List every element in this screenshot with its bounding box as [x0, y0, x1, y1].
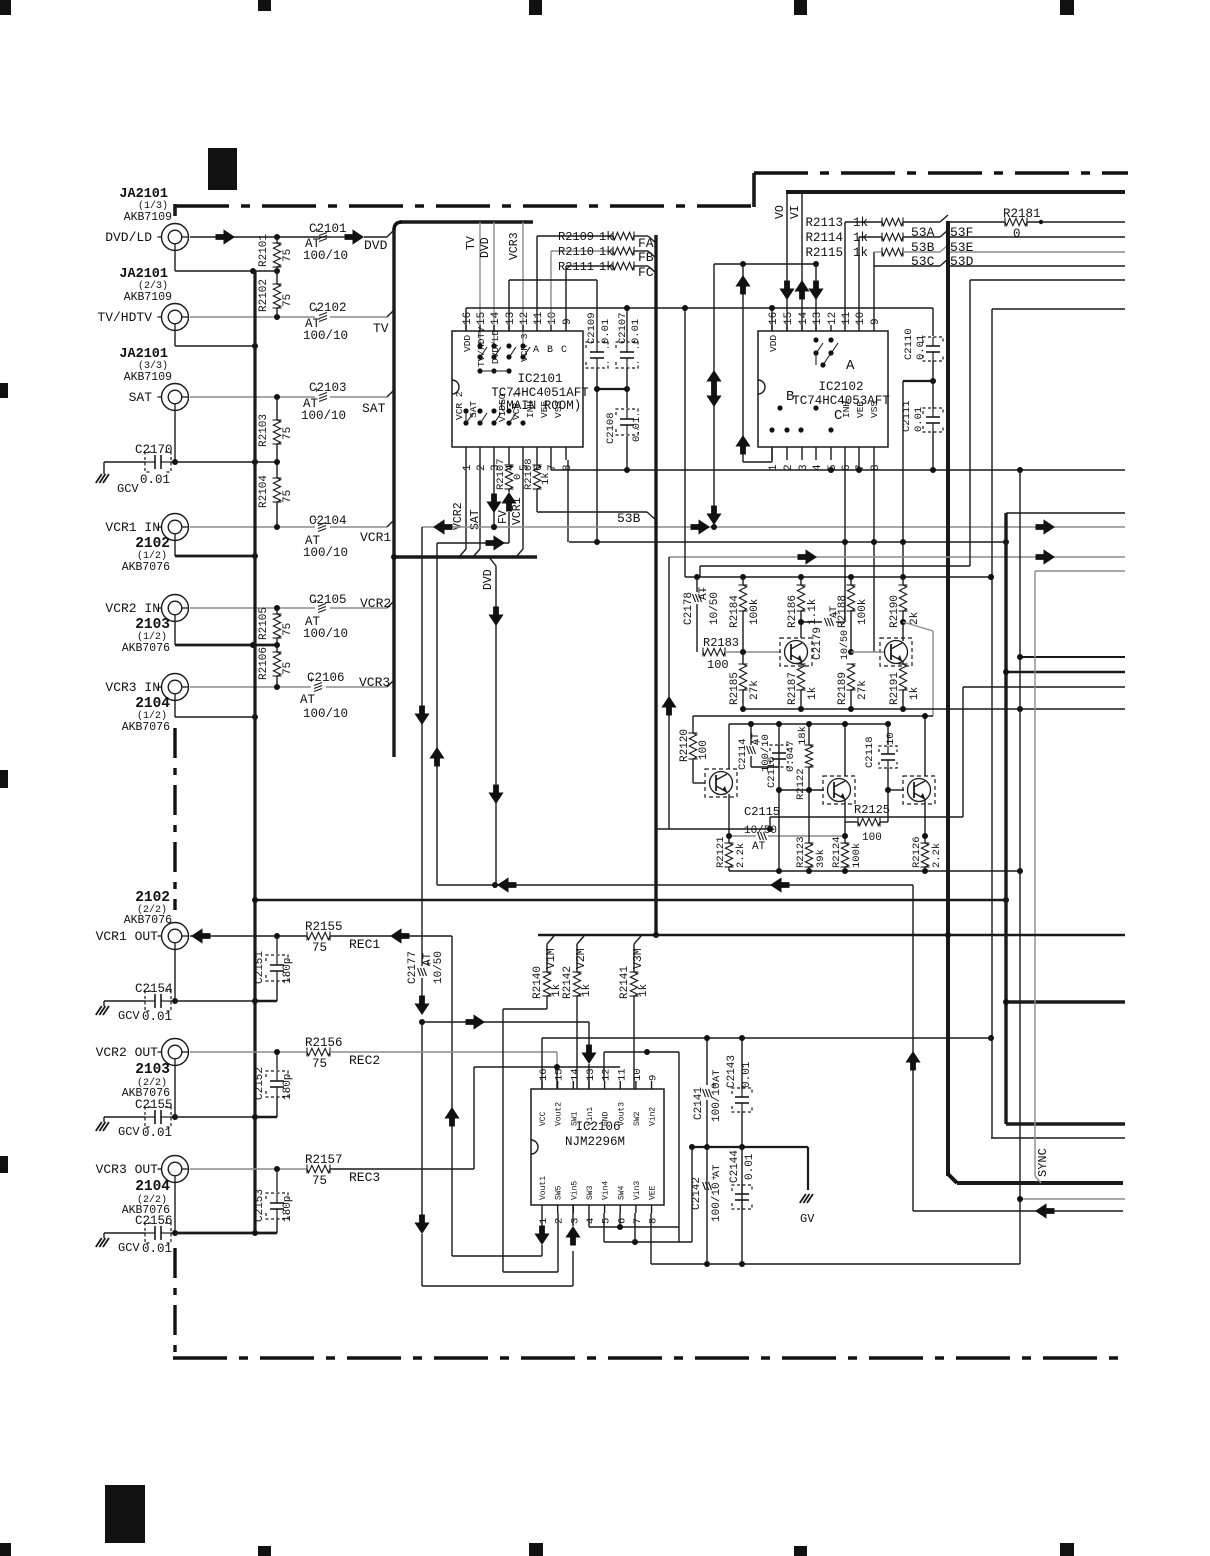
- svg-text:100/10: 100/10: [711, 1182, 723, 1222]
- svg-text:NJM2296M: NJM2296M: [565, 1135, 625, 1149]
- svg-text:R2157: R2157: [305, 1153, 343, 1167]
- svg-text:12: 12: [519, 312, 531, 325]
- svg-text:R2111: R2111: [558, 260, 594, 274]
- svg-text:15: 15: [476, 312, 488, 325]
- svg-text:10/50: 10/50: [433, 951, 445, 984]
- svg-text:C: C: [561, 345, 567, 356]
- svg-text:100/10: 100/10: [303, 546, 348, 560]
- svg-text:100k: 100k: [749, 598, 761, 625]
- svg-text:AT: AT: [711, 1069, 723, 1082]
- svg-text:C2153: C2153: [254, 1189, 266, 1222]
- svg-text:IC2101: IC2101: [517, 372, 562, 386]
- svg-text:R2186: R2186: [787, 595, 799, 628]
- svg-text:VEE: VEE: [649, 1185, 658, 1200]
- svg-text:GCV: GCV: [117, 482, 139, 496]
- svg-text:B: B: [547, 345, 553, 356]
- svg-text:R2108: R2108: [523, 458, 535, 490]
- svg-text:TV/HDTV: TV/HDTV: [97, 310, 152, 325]
- svg-text:R2106: R2106: [258, 647, 270, 680]
- svg-text:0.01: 0.01: [631, 417, 643, 442]
- svg-text:C2143: C2143: [726, 1055, 738, 1088]
- svg-text:100/10: 100/10: [303, 627, 348, 641]
- svg-text:10/50: 10/50: [839, 630, 851, 660]
- svg-text:1k: 1k: [638, 983, 650, 997]
- svg-text:C2144: C2144: [729, 1150, 741, 1183]
- svg-text:R2113: R2113: [805, 216, 843, 230]
- svg-text:2: 2: [476, 464, 488, 471]
- svg-text:C2108: C2108: [605, 412, 617, 444]
- svg-text:11: 11: [533, 311, 545, 325]
- svg-text:10: 10: [632, 1068, 644, 1081]
- svg-text:16: 16: [538, 1068, 550, 1081]
- svg-text:VCR 2: VCR 2: [454, 391, 465, 420]
- svg-text:14: 14: [798, 311, 810, 325]
- svg-text:JA2101: JA2101: [119, 347, 168, 362]
- svg-text:11: 11: [841, 311, 853, 325]
- svg-text:REC1: REC1: [349, 937, 380, 952]
- svg-text:R2142: R2142: [562, 966, 574, 999]
- svg-text:9: 9: [870, 318, 882, 325]
- svg-text:C2179: C2179: [812, 627, 824, 660]
- svg-text:VCR3: VCR3: [359, 675, 390, 690]
- svg-text:0.01: 0.01: [142, 1242, 172, 1256]
- svg-text:2: 2: [554, 1218, 566, 1224]
- svg-text:100/10: 100/10: [711, 1082, 723, 1122]
- svg-text:13: 13: [585, 1068, 597, 1081]
- svg-text:C2151: C2151: [254, 951, 266, 984]
- svg-text:GV: GV: [800, 1212, 815, 1226]
- svg-text:REC3: REC3: [349, 1170, 380, 1185]
- svg-text:2k: 2k: [909, 611, 921, 625]
- svg-text:1.1k: 1.1k: [807, 598, 819, 625]
- svg-text:C2152: C2152: [254, 1067, 266, 1100]
- svg-text:AT: AT: [752, 841, 766, 853]
- svg-text:VEE: VEE: [855, 401, 866, 418]
- svg-text:18k: 18k: [797, 726, 809, 745]
- svg-text:1k: 1k: [581, 983, 593, 997]
- svg-text:VI: VI: [789, 205, 802, 219]
- svg-text:53D: 53D: [950, 254, 974, 269]
- svg-text:0: 0: [1013, 227, 1021, 241]
- svg-text:SAT: SAT: [129, 390, 153, 405]
- svg-text:1k: 1k: [599, 230, 613, 244]
- svg-text:C2106: C2106: [307, 671, 345, 685]
- svg-text:16: 16: [462, 312, 474, 325]
- svg-text:2102: 2102: [135, 536, 170, 552]
- svg-text:100/10: 100/10: [301, 409, 346, 423]
- svg-text:1k: 1k: [599, 260, 613, 274]
- svg-text:2104: 2104: [135, 1179, 170, 1195]
- svg-text:R2141: R2141: [619, 966, 631, 999]
- svg-text:VCR3: VCR3: [508, 232, 521, 260]
- svg-text:R2122: R2122: [795, 768, 807, 800]
- svg-text:12: 12: [601, 1068, 613, 1081]
- svg-text:IC2106: IC2106: [575, 1120, 620, 1134]
- svg-text:9: 9: [648, 1075, 660, 1081]
- svg-text:C2178: C2178: [683, 592, 695, 625]
- svg-text:Vin2: Vin2: [649, 1107, 658, 1126]
- svg-text:C2101: C2101: [309, 222, 347, 236]
- svg-text:R2103: R2103: [258, 414, 270, 447]
- svg-text:AKB7109: AKB7109: [124, 211, 172, 224]
- svg-text:C2110: C2110: [903, 328, 915, 360]
- svg-text:FB: FB: [638, 250, 654, 265]
- svg-text:FA: FA: [638, 236, 654, 251]
- svg-text:VIDEO: VIDEO: [497, 393, 508, 422]
- svg-text:R2156: R2156: [305, 1036, 343, 1050]
- svg-text:15: 15: [783, 312, 795, 325]
- svg-text:C2118: C2118: [864, 736, 876, 768]
- svg-text:VCR2: VCR2: [452, 502, 465, 530]
- svg-text:AKB7076: AKB7076: [122, 642, 170, 655]
- svg-text:C2107: C2107: [617, 312, 629, 344]
- svg-text:GCV: GCV: [118, 1241, 140, 1255]
- svg-text:C2102: C2102: [309, 301, 347, 315]
- svg-text:75: 75: [312, 1057, 327, 1071]
- svg-text:R2109: R2109: [558, 230, 594, 244]
- svg-text:C2103: C2103: [309, 381, 347, 395]
- svg-text:REC2: REC2: [349, 1053, 380, 1068]
- svg-text:C2116: C2116: [766, 756, 778, 788]
- svg-text:FC: FC: [638, 265, 654, 280]
- svg-text:75: 75: [282, 623, 294, 636]
- svg-text:2.2k: 2.2k: [735, 843, 747, 868]
- svg-text:INH: INH: [841, 401, 852, 418]
- svg-text:12: 12: [827, 312, 839, 325]
- svg-text:C2109: C2109: [586, 312, 598, 344]
- svg-text:R2140: R2140: [532, 966, 544, 999]
- svg-text:VDD: VDD: [768, 335, 779, 352]
- svg-text:C2170: C2170: [135, 443, 173, 457]
- svg-text:180p: 180p: [282, 1074, 294, 1100]
- svg-text:VCR1: VCR1: [511, 497, 524, 525]
- svg-text:Vout2: Vout2: [555, 1102, 564, 1126]
- svg-text:53F: 53F: [950, 225, 973, 240]
- svg-text:SAT: SAT: [362, 401, 386, 416]
- svg-text:14: 14: [569, 1068, 581, 1081]
- svg-text:R2187: R2187: [787, 672, 799, 705]
- svg-text:FV: FV: [497, 510, 510, 524]
- svg-text:R2104: R2104: [258, 475, 270, 508]
- svg-text:R2183: R2183: [703, 636, 739, 650]
- svg-text:VSS: VSS: [553, 401, 564, 418]
- svg-text:SW4: SW4: [617, 1185, 626, 1200]
- svg-text:VCR3 IN: VCR3 IN: [105, 680, 160, 695]
- svg-text:53A: 53A: [911, 225, 935, 240]
- svg-text:C2156: C2156: [135, 1214, 173, 1228]
- svg-text:R2120: R2120: [679, 729, 691, 762]
- svg-text:0.01: 0.01: [600, 319, 612, 344]
- svg-text:R2114: R2114: [805, 231, 843, 245]
- svg-text:100/10: 100/10: [303, 707, 348, 721]
- svg-text:Vin4: Vin4: [602, 1181, 611, 1200]
- svg-text:VSS: VSS: [869, 401, 880, 418]
- svg-text:100/10: 100/10: [303, 249, 348, 263]
- svg-text:VCR2 IN: VCR2 IN: [105, 601, 160, 616]
- svg-text:11: 11: [616, 1068, 628, 1081]
- svg-text:GCV: GCV: [118, 1125, 140, 1139]
- svg-text:Vin5: Vin5: [570, 1181, 579, 1200]
- svg-text:VCR2 OUT: VCR2 OUT: [96, 1045, 159, 1060]
- svg-text:1k: 1k: [599, 245, 613, 259]
- svg-text:SAT: SAT: [468, 401, 479, 418]
- svg-text:2104: 2104: [135, 696, 170, 712]
- svg-text:100/10: 100/10: [303, 329, 348, 343]
- svg-text:R2115: R2115: [805, 246, 843, 260]
- svg-text:0.01: 0.01: [142, 1010, 172, 1024]
- svg-text:180p: 180p: [282, 1196, 294, 1222]
- svg-text:DVD: DVD: [364, 238, 388, 253]
- svg-text:10: 10: [855, 312, 867, 325]
- svg-text:V2M: V2M: [575, 948, 588, 969]
- svg-text:V1M: V1M: [545, 948, 558, 969]
- svg-text:53C: 53C: [911, 254, 935, 269]
- svg-text:13: 13: [812, 312, 824, 325]
- svg-text:TV: TV: [465, 236, 478, 250]
- svg-text:1k: 1k: [807, 686, 819, 700]
- svg-text:R2110: R2110: [558, 245, 594, 259]
- svg-text:VCC: VCC: [539, 1111, 548, 1126]
- svg-text:13: 13: [505, 312, 517, 325]
- svg-text:SW3: SW3: [586, 1185, 595, 1200]
- svg-text:VCR3 OUT: VCR3 OUT: [96, 1162, 159, 1177]
- svg-text:0.01: 0.01: [915, 335, 927, 360]
- svg-text:R2181: R2181: [1003, 207, 1041, 221]
- svg-text:14: 14: [490, 311, 502, 325]
- svg-text:27k: 27k: [749, 680, 761, 700]
- svg-text:VCR 1: VCR 1: [511, 391, 522, 420]
- svg-text:R2123: R2123: [795, 836, 807, 868]
- svg-text:75: 75: [282, 249, 294, 262]
- svg-text:0.01: 0.01: [913, 407, 925, 432]
- svg-text:1: 1: [538, 1218, 550, 1224]
- svg-text:AT: AT: [711, 1164, 723, 1177]
- svg-text:7: 7: [632, 1218, 644, 1224]
- svg-text:75: 75: [282, 427, 294, 440]
- svg-text:AT: AT: [829, 606, 840, 618]
- svg-text:A: A: [846, 358, 855, 374]
- svg-text:VCR1 OUT: VCR1 OUT: [96, 929, 159, 944]
- svg-text:1: 1: [462, 464, 474, 471]
- svg-text:GCV: GCV: [118, 1009, 140, 1023]
- svg-text:C2155: C2155: [135, 1098, 173, 1112]
- svg-text:100: 100: [707, 658, 729, 672]
- svg-text:2102: 2102: [135, 890, 170, 906]
- svg-text:SYNC: SYNC: [1036, 1148, 1050, 1177]
- svg-text:53B: 53B: [617, 511, 641, 526]
- svg-text:0.01: 0.01: [741, 1061, 753, 1088]
- svg-text:AKB7076: AKB7076: [124, 914, 172, 927]
- svg-text:R2124: R2124: [831, 836, 843, 868]
- svg-text:15: 15: [554, 1068, 566, 1081]
- svg-text:Vin3: Vin3: [633, 1181, 642, 1200]
- svg-text:SW2: SW2: [633, 1111, 642, 1126]
- svg-text:100: 100: [698, 740, 710, 760]
- svg-text:C2177: C2177: [407, 951, 419, 984]
- svg-text:4: 4: [585, 1218, 597, 1224]
- svg-text:75: 75: [312, 1174, 327, 1188]
- svg-text:53E: 53E: [950, 240, 974, 255]
- svg-text:R2190: R2190: [889, 595, 901, 628]
- svg-text:10: 10: [885, 732, 897, 745]
- svg-text:2103: 2103: [135, 1062, 170, 1078]
- svg-text:AKB7109: AKB7109: [124, 371, 172, 384]
- svg-text:JA2101: JA2101: [119, 267, 168, 282]
- svg-text:Vout1: Vout1: [539, 1176, 548, 1200]
- svg-text:0.01: 0.01: [140, 473, 170, 487]
- svg-text:100: 100: [862, 832, 882, 844]
- svg-text:1k: 1k: [853, 246, 868, 260]
- svg-text:R2189: R2189: [837, 672, 849, 705]
- svg-text:27k: 27k: [857, 680, 869, 700]
- svg-text:1k: 1k: [540, 472, 552, 485]
- svg-text:VO: VO: [774, 205, 787, 219]
- svg-text:R2125: R2125: [854, 803, 890, 817]
- svg-text:AKB7076: AKB7076: [122, 721, 170, 734]
- svg-text:R2185: R2185: [729, 672, 741, 705]
- svg-text:1k: 1k: [853, 231, 868, 245]
- svg-text:C2142: C2142: [691, 1177, 703, 1210]
- svg-text:R2107: R2107: [495, 458, 507, 490]
- svg-text:100k: 100k: [851, 843, 863, 868]
- svg-text:DVD: DVD: [482, 569, 495, 590]
- svg-text:R2191: R2191: [889, 672, 901, 705]
- svg-text:0.047: 0.047: [785, 740, 797, 772]
- svg-text:0.01: 0.01: [630, 319, 642, 344]
- svg-text:3: 3: [569, 1218, 581, 1224]
- svg-text:R2184: R2184: [729, 595, 741, 628]
- svg-text:0.01: 0.01: [744, 1153, 756, 1180]
- svg-text:R2155: R2155: [305, 920, 343, 934]
- svg-text:180p: 180p: [282, 958, 294, 984]
- svg-text:75: 75: [282, 294, 294, 307]
- svg-text:0.01: 0.01: [142, 1126, 172, 1140]
- svg-text:VEE: VEE: [539, 401, 550, 418]
- svg-text:SW5: SW5: [555, 1185, 564, 1200]
- svg-text:A: A: [533, 345, 539, 356]
- svg-text:10: 10: [547, 312, 559, 325]
- svg-text:C2105: C2105: [309, 593, 347, 607]
- svg-text:R2101: R2101: [258, 234, 270, 267]
- svg-text:R2121: R2121: [715, 836, 727, 868]
- svg-text:C2114: C2114: [737, 738, 749, 770]
- svg-text:75: 75: [312, 941, 327, 955]
- svg-text:DVD: DVD: [479, 237, 492, 258]
- svg-text:VCR2: VCR2: [360, 596, 391, 611]
- svg-text:C2154: C2154: [135, 982, 173, 996]
- svg-text:1k: 1k: [853, 216, 868, 230]
- svg-text:6: 6: [616, 1218, 628, 1224]
- svg-text:100k: 100k: [857, 598, 869, 625]
- svg-text:75: 75: [282, 662, 294, 675]
- svg-text:AKB7076: AKB7076: [122, 561, 170, 574]
- svg-text:53B: 53B: [911, 240, 935, 255]
- svg-text:VCR1 IN: VCR1 IN: [105, 520, 160, 535]
- svg-text:8: 8: [648, 1218, 660, 1224]
- svg-text:V3M: V3M: [632, 948, 645, 969]
- svg-text:VDD: VDD: [462, 335, 473, 352]
- svg-text:R2102: R2102: [258, 279, 270, 312]
- svg-text:R2126: R2126: [911, 836, 923, 868]
- svg-text:DVD/LD: DVD/LD: [105, 230, 152, 245]
- svg-text:1k: 1k: [909, 686, 921, 700]
- svg-text:5: 5: [601, 1218, 613, 1224]
- svg-text:JA2101: JA2101: [119, 187, 168, 202]
- svg-text:IC2102: IC2102: [818, 380, 863, 394]
- svg-text:B: B: [786, 389, 794, 405]
- svg-text:C2141: C2141: [693, 1087, 705, 1120]
- svg-text:2.2k: 2.2k: [931, 843, 943, 868]
- svg-text:R2105: R2105: [258, 607, 270, 640]
- svg-text:9: 9: [562, 318, 574, 325]
- svg-text:TV: TV: [373, 321, 389, 336]
- svg-text:C2111: C2111: [901, 400, 913, 432]
- svg-text:AKB7109: AKB7109: [124, 291, 172, 304]
- svg-text:C2104: C2104: [309, 514, 347, 528]
- svg-text:10/50: 10/50: [709, 592, 721, 625]
- svg-text:2103: 2103: [135, 617, 170, 633]
- svg-text:VCR1: VCR1: [360, 530, 391, 545]
- svg-text:16: 16: [768, 312, 780, 325]
- svg-text:AT: AT: [300, 693, 316, 707]
- svg-text:INH: INH: [525, 401, 536, 418]
- svg-text:39k: 39k: [815, 849, 827, 868]
- svg-text:75: 75: [282, 490, 294, 503]
